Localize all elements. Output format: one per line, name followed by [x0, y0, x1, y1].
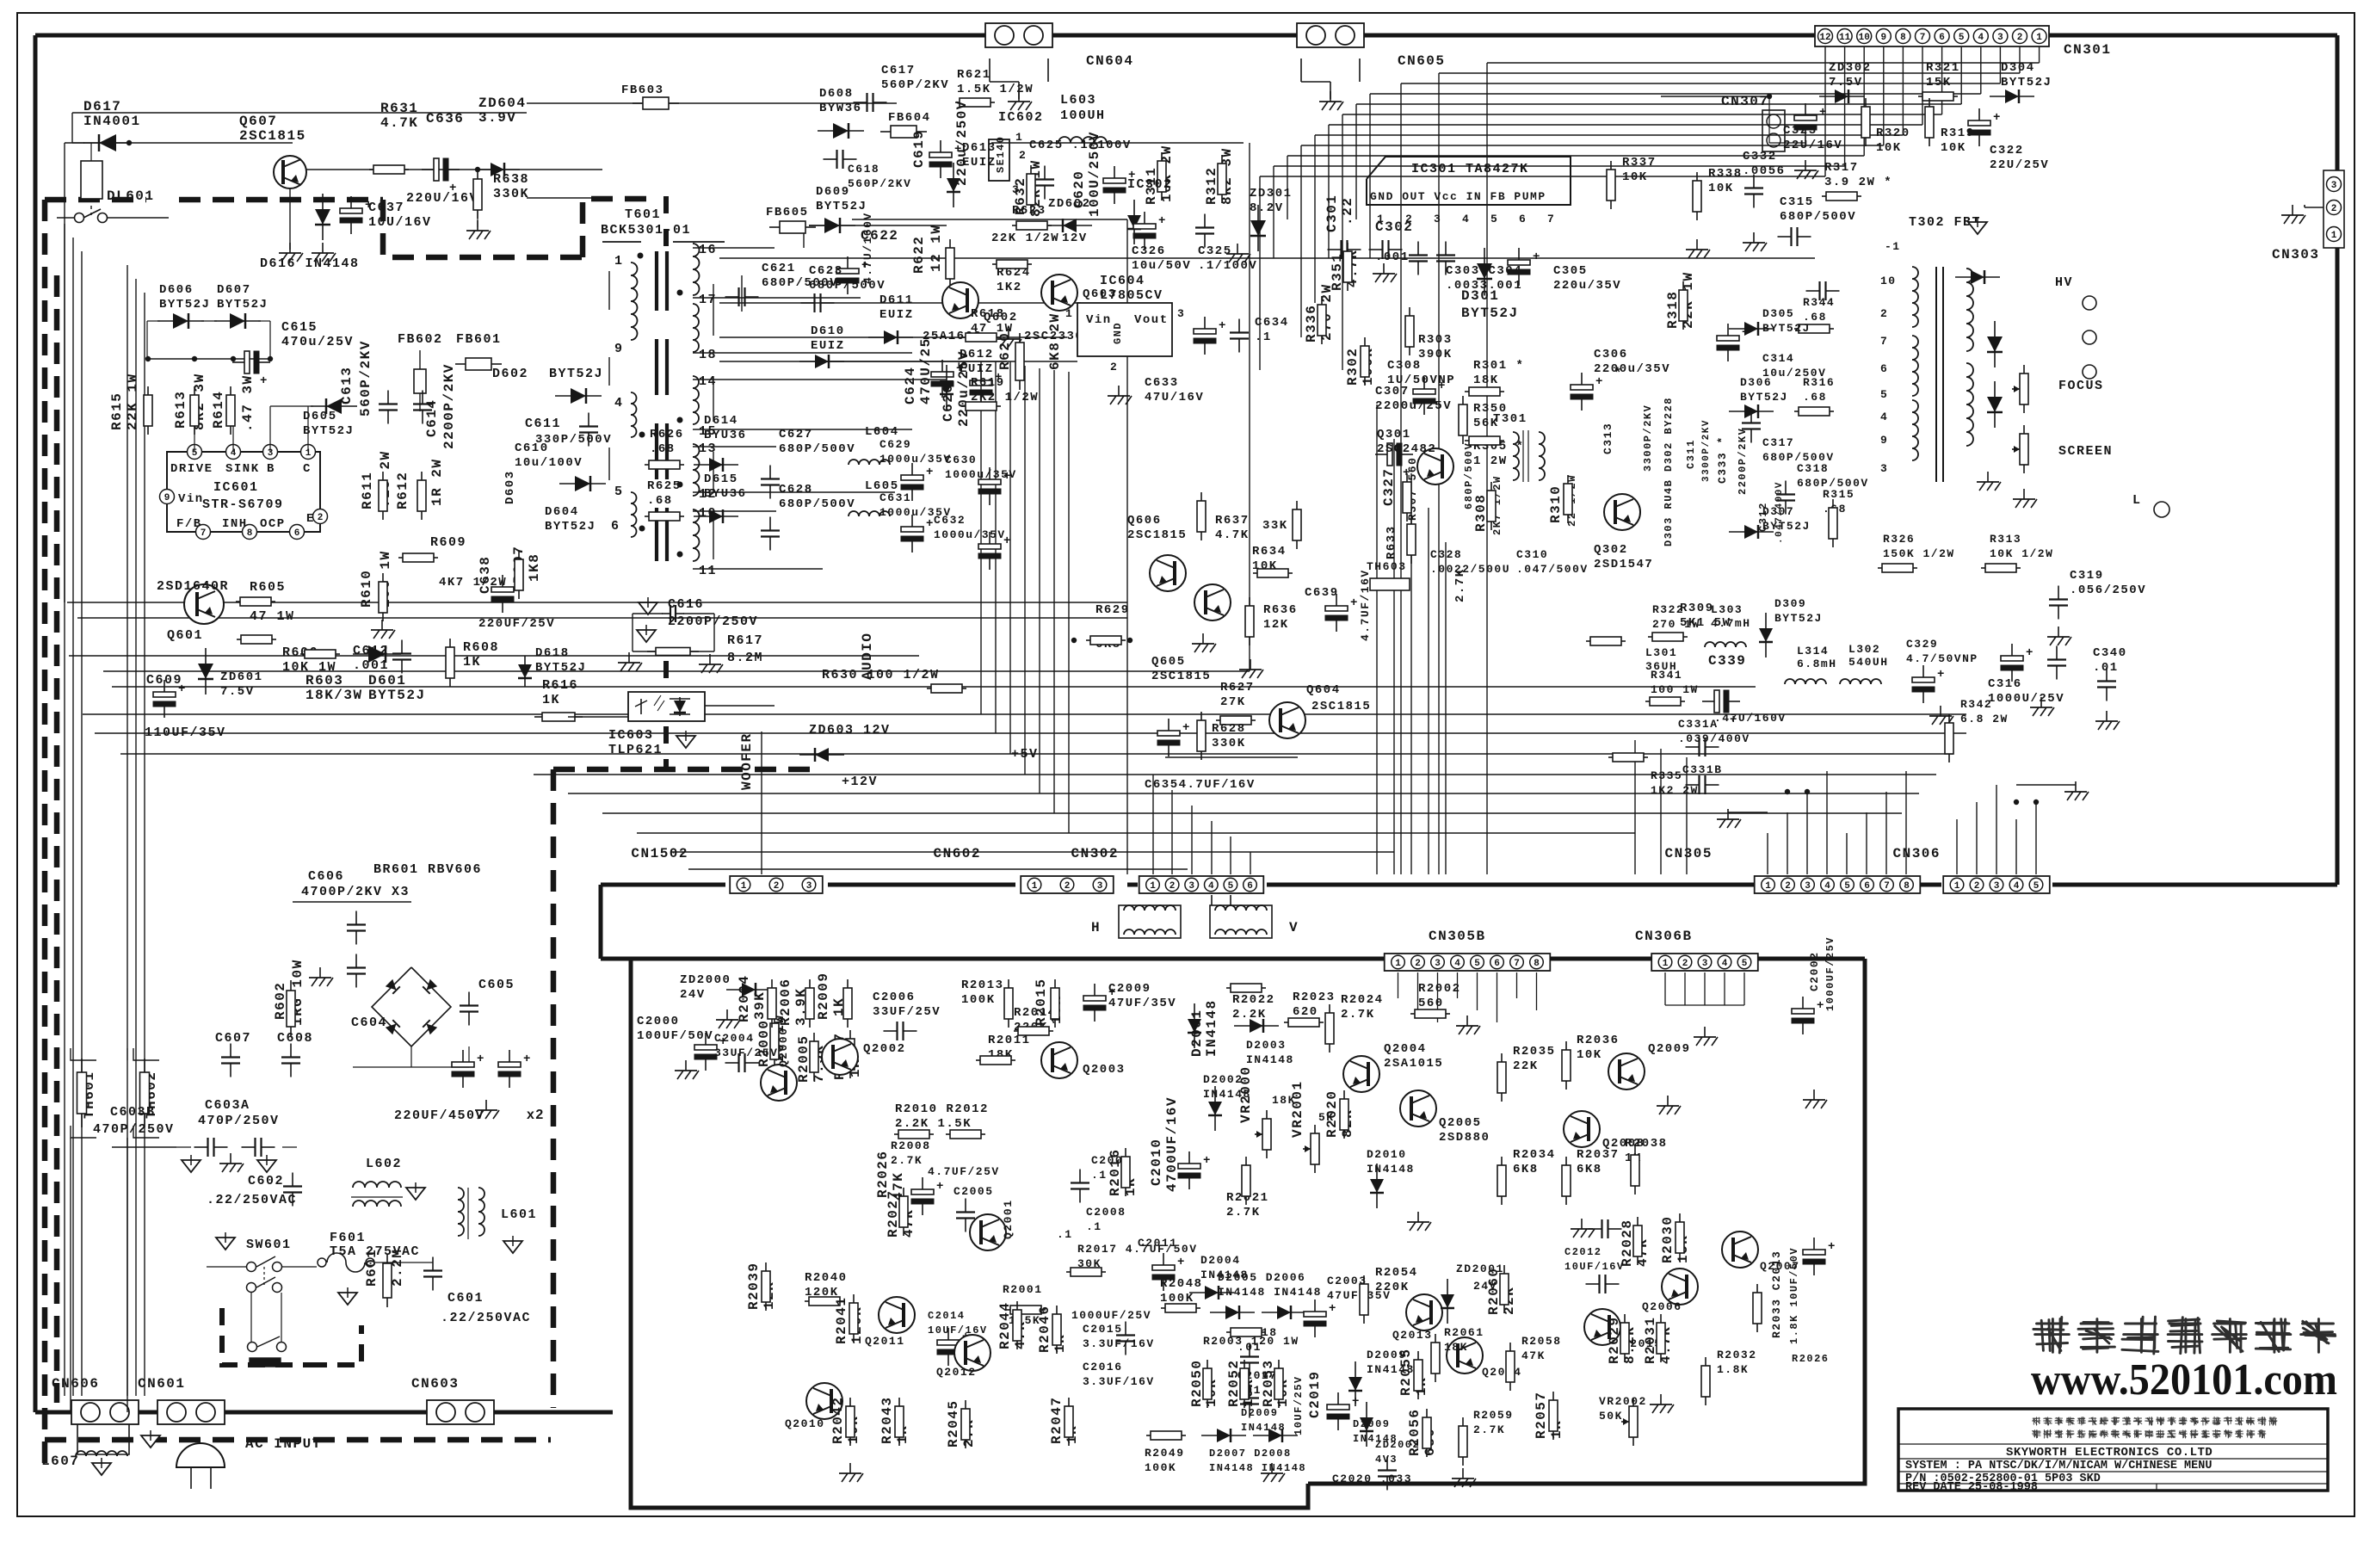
svg-text:6K8: 6K8 [1513, 1163, 1539, 1176]
svg-text:R338: R338 [1708, 167, 1743, 181]
svg-text:R608: R608 [463, 640, 499, 655]
svg-text:D611: D611 [879, 293, 914, 307]
svg-text:4: 4 [614, 396, 624, 411]
svg-text:D604: D604 [545, 505, 579, 519]
svg-text:R638: R638 [493, 172, 529, 187]
svg-text:GND: GND [1112, 322, 1124, 344]
svg-text:1K8: 1K8 [527, 553, 542, 582]
svg-text:ZD601: ZD601 [220, 670, 263, 684]
svg-text:3: 3 [1434, 213, 1441, 225]
svg-text:R2042: R2042 [830, 1396, 846, 1444]
svg-text:2SC1815: 2SC1815 [1151, 670, 1211, 683]
svg-text:R2048: R2048 [1160, 1277, 1203, 1291]
svg-text:Q2009: Q2009 [1648, 1042, 1691, 1056]
svg-text:10K 1/2W: 10K 1/2W [1990, 547, 2053, 560]
svg-text:10K: 10K [1708, 182, 1734, 195]
svg-text:+: + [1158, 214, 1167, 228]
svg-text:12V: 12V [1062, 231, 1088, 245]
svg-text:4: 4 [1462, 213, 1470, 225]
svg-text:SKYWORTH ELECTRONICS CO.LTD: SKYWORTH ELECTRONICS CO.LTD [2006, 1446, 2212, 1460]
svg-text:R2040: R2040 [805, 1271, 848, 1285]
svg-text:R2023: R2023 [1293, 991, 1336, 1004]
svg-text:*: * [1614, 366, 1623, 381]
svg-text:7: 7 [1920, 33, 1926, 43]
svg-text:IN4148: IN4148 [1241, 1422, 1286, 1434]
svg-text:C610: C610 [515, 441, 549, 455]
svg-text:T601: T601 [625, 207, 661, 222]
svg-text:L601: L601 [501, 1207, 537, 1222]
svg-text:C618: C618 [848, 163, 879, 176]
svg-text:220K: 220K [1375, 1281, 1410, 1294]
svg-text:5: 5 [1880, 388, 1888, 401]
svg-text:D301: D301 [1461, 288, 1499, 304]
svg-text:C313: C313 [1601, 423, 1614, 454]
svg-text:4.7mH: 4.7mH [1711, 617, 1751, 630]
svg-text:R2036: R2036 [1577, 1034, 1620, 1047]
svg-text:Q606: Q606 [1127, 514, 1162, 528]
svg-text:C605: C605 [478, 978, 515, 992]
svg-text:470u/25V: 470u/25V [281, 335, 354, 349]
svg-text:18K/3W: 18K/3W [305, 688, 363, 703]
svg-text:1000UF/25V: 1000UF/25V [1824, 936, 1836, 1011]
svg-text:C608: C608 [277, 1031, 313, 1046]
svg-text:C629: C629 [879, 438, 911, 451]
svg-text:D614: D614 [704, 414, 738, 428]
svg-text:R2009: R2009 [816, 972, 831, 1020]
svg-text:C307: C307 [1375, 385, 1410, 398]
svg-text:47U/16V: 47U/16V [1145, 391, 1204, 404]
svg-text:.68: .68 [1803, 391, 1827, 404]
svg-text:D302 BY228: D302 BY228 [1663, 397, 1675, 472]
svg-text:7: 7 [1884, 881, 1890, 892]
svg-text:560: 560 [1418, 997, 1444, 1010]
svg-text:1000u/35V: 1000u/35V [879, 453, 952, 466]
svg-text:R628: R628 [1212, 722, 1246, 736]
svg-text:D605: D605 [303, 410, 337, 423]
svg-text:D306: D306 [1740, 376, 1772, 389]
svg-text:R2020: R2020 [1324, 1090, 1340, 1138]
svg-text:14: 14 [699, 374, 717, 389]
svg-text:BYU36: BYU36 [704, 429, 747, 442]
svg-text:D618: D618 [535, 646, 570, 660]
svg-text:C2005: C2005 [953, 1185, 994, 1198]
svg-text:R2002: R2002 [1418, 982, 1461, 996]
svg-text:F601: F601 [330, 1231, 366, 1245]
svg-text:C: C [303, 462, 312, 476]
svg-text:9: 9 [1880, 33, 1886, 43]
svg-text:+: + [1182, 721, 1191, 735]
svg-text:ZD603 12V: ZD603 12V [809, 723, 891, 738]
svg-text:L314: L314 [1797, 645, 1829, 657]
svg-text:6K8: 6K8 [1577, 1163, 1602, 1176]
svg-text:L301: L301 [1645, 646, 1677, 659]
svg-text:150K 1/2W: 150K 1/2W [1883, 547, 1955, 560]
svg-text:680P/500V: 680P/500V [779, 442, 855, 456]
svg-text:DRIVE: DRIVE [170, 462, 213, 476]
svg-text:4: 4 [1722, 959, 1728, 969]
svg-text:C604: C604 [351, 1015, 387, 1030]
svg-text:R2058: R2058 [1521, 1335, 1562, 1348]
svg-text:D2003: D2003 [1246, 1039, 1287, 1052]
svg-text:C631: C631 [879, 491, 911, 504]
svg-text:8: 8 [247, 528, 253, 539]
svg-text:C615: C615 [281, 320, 318, 335]
svg-text:C305: C305 [1553, 264, 1588, 278]
svg-text:1.8K: 1.8K [1717, 1363, 1749, 1376]
svg-text:D2010: D2010 [1367, 1148, 1407, 1161]
svg-text:680P/500V: 680P/500V [809, 279, 886, 293]
svg-text:D606: D606 [159, 283, 194, 297]
svg-text:4V3: 4V3 [1375, 1454, 1398, 1466]
svg-text:C325: C325 [1198, 244, 1232, 258]
svg-text:R2037: R2037 [1577, 1148, 1620, 1162]
svg-text:BYT52J: BYT52J [1740, 391, 1788, 404]
svg-text:+: + [1350, 596, 1359, 610]
svg-text:3: 3 [1994, 881, 2000, 892]
svg-text:V: V [1289, 920, 1299, 935]
svg-text:Q2000: Q2000 [777, 1027, 790, 1067]
svg-text:BYT52J: BYT52J [159, 298, 210, 312]
svg-text:Q601: Q601 [167, 628, 203, 643]
svg-text:C331A: C331A [1678, 718, 1719, 731]
svg-text:FB605: FB605 [766, 206, 809, 219]
svg-text:R302: R302 [1345, 348, 1361, 386]
svg-text:7: 7 [1514, 959, 1520, 969]
svg-text:C2016: C2016 [1083, 1361, 1123, 1374]
svg-text:6.8mH: 6.8mH [1797, 657, 1837, 670]
svg-text:C326: C326 [1132, 244, 1166, 258]
svg-text:Q2001: Q2001 [1002, 1199, 1015, 1239]
svg-text:R337: R337 [1622, 156, 1657, 170]
svg-text:C603B: C603B [110, 1105, 156, 1120]
svg-text:-1: -1 [1885, 240, 1901, 253]
svg-text:R617: R617 [727, 633, 763, 648]
svg-text:4.7K: 4.7K [1215, 528, 1250, 542]
svg-text:2200P/2KV: 2200P/2KV [441, 363, 457, 449]
svg-text:IN4148: IN4148 [1246, 1053, 1294, 1066]
svg-text:R316: R316 [1803, 376, 1835, 389]
svg-text:IC601: IC601 [213, 480, 259, 495]
svg-text:2.7K: 2.7K [1341, 1008, 1375, 1022]
svg-text:22K 1/2W: 22K 1/2W [991, 231, 1059, 245]
svg-text:DL601: DL601 [107, 188, 155, 204]
svg-text:FB603: FB603 [621, 83, 664, 97]
svg-text:R637: R637 [1215, 514, 1250, 528]
svg-text:C319: C319 [2070, 569, 2104, 583]
svg-text:2.7K: 2.7K [891, 1154, 923, 1167]
svg-text:R2024: R2024 [1341, 993, 1384, 1007]
svg-text:R2008: R2008 [891, 1139, 931, 1152]
svg-text:EUIZ: EUIZ [962, 156, 997, 170]
svg-text:D609: D609 [816, 185, 850, 199]
svg-text:R615: R615 [109, 392, 125, 430]
svg-text:100K: 100K [1145, 1461, 1176, 1474]
svg-text:3300P/2KV: 3300P/2KV [1701, 419, 1712, 482]
svg-text:1: 1 [1395, 959, 1401, 969]
svg-text:10K: 10K [1577, 1048, 1602, 1062]
svg-text:2: 2 [1110, 361, 1118, 373]
svg-text:R2034: R2034 [1513, 1148, 1556, 1162]
svg-text:+: + [1003, 470, 1012, 484]
svg-text:.1: .1 [1255, 330, 1272, 344]
svg-text:7: 7 [1880, 335, 1888, 348]
svg-text:C2004: C2004 [714, 1032, 755, 1045]
svg-text:+: + [2026, 646, 2034, 660]
svg-text:15K: 15K [1926, 76, 1952, 90]
svg-text:2: 2 [1415, 959, 1421, 969]
svg-text:R2013: R2013 [961, 978, 1004, 992]
svg-text:C318: C318 [1797, 462, 1829, 475]
svg-text:C627: C627 [779, 428, 813, 441]
svg-text:2: 2 [1785, 881, 1791, 892]
svg-text:Q2014: Q2014 [1482, 1366, 1522, 1379]
svg-text:D307: D307 [1762, 505, 1794, 518]
svg-text:+: + [1817, 999, 1825, 1013]
svg-text:3.3UF/16V: 3.3UF/16V [1083, 1375, 1155, 1388]
svg-text:IC602: IC602 [998, 110, 1044, 125]
svg-text:1K: 1K [542, 693, 560, 707]
svg-text:R2039: R2039 [746, 1262, 762, 1310]
svg-text:Q2002: Q2002 [863, 1042, 906, 1056]
svg-text:2.2K: 2.2K [1232, 1008, 1267, 1022]
svg-text:B: B [267, 462, 275, 476]
svg-text:C623: C623 [809, 264, 843, 278]
svg-text:3.9 2W *: 3.9 2W * [1824, 176, 1892, 189]
svg-text:1K: 1K [463, 655, 481, 670]
svg-text:R303: R303 [1418, 333, 1453, 347]
svg-text:22K: 22K [1513, 1059, 1539, 1073]
svg-text:Q2013: Q2013 [1392, 1329, 1433, 1342]
svg-text:8: 8 [1904, 881, 1910, 892]
svg-text:R2045: R2045 [946, 1399, 961, 1448]
svg-text:1K2: 1K2 [997, 281, 1022, 294]
svg-text:4: 4 [1824, 881, 1830, 892]
svg-text:5: 5 [2033, 881, 2040, 892]
svg-text:D2004: D2004 [1200, 1254, 1241, 1267]
svg-text:D608: D608 [819, 87, 854, 101]
svg-text:R2044: R2044 [997, 1301, 1013, 1349]
svg-text:1000U/25V: 1000U/25V [1988, 692, 2064, 706]
svg-text:2SD880: 2SD880 [1439, 1131, 1490, 1145]
svg-text:R2030: R2030 [1660, 1215, 1676, 1263]
svg-text:C2019: C2019 [1307, 1370, 1323, 1418]
svg-text:Vin: Vin [1086, 313, 1112, 327]
svg-text:C602: C602 [248, 1174, 284, 1188]
svg-text:2: 2 [2017, 33, 2023, 43]
svg-text:3300P/2KV: 3300P/2KV [1642, 404, 1654, 472]
svg-text:E: E [306, 512, 315, 526]
svg-text:+: + [1108, 986, 1117, 1000]
svg-text:C616: C616 [668, 597, 704, 612]
svg-text:24V: 24V [680, 988, 706, 1002]
svg-text:x2: x2 [527, 1108, 545, 1122]
svg-text:CN604: CN604 [1086, 53, 1134, 69]
svg-text:27K: 27K [1220, 695, 1246, 709]
svg-text:C331B: C331B [1682, 763, 1723, 776]
svg-text:C2010: C2010 [1149, 1138, 1164, 1186]
svg-text:Vin: Vin [178, 492, 204, 506]
svg-text:10u/100V: 10u/100V [515, 456, 583, 470]
svg-text:5: 5 [1228, 881, 1234, 892]
svg-text:R2001: R2001 [1003, 1283, 1043, 1296]
svg-text:L302: L302 [1848, 643, 1880, 656]
svg-text:C2015: C2015 [1083, 1323, 1123, 1336]
svg-text:470P/250V: 470P/250V [93, 1122, 175, 1137]
svg-text:8: 8 [1534, 959, 1540, 969]
svg-text:C634: C634 [1255, 316, 1289, 330]
svg-text:390K: 390K [1418, 348, 1453, 361]
svg-text:C609: C609 [146, 673, 182, 688]
svg-text:+: + [523, 1053, 532, 1066]
svg-text:39K: 39K [752, 991, 768, 1020]
svg-text:C317: C317 [1762, 436, 1794, 449]
svg-text:R322: R322 [1652, 603, 1684, 616]
svg-text:C332: C332 [1743, 150, 1777, 164]
svg-text:R2061: R2061 [1444, 1326, 1484, 1339]
svg-text:R2011: R2011 [988, 1034, 1031, 1047]
svg-text:5: 5 [1742, 959, 1748, 969]
svg-text:.1: .1 [1091, 1169, 1108, 1182]
svg-text:R633: R633 [1385, 525, 1398, 559]
svg-text:BYT52J: BYT52J [2001, 76, 2052, 90]
svg-text:R2010 R2012: R2010 R2012 [895, 1102, 989, 1116]
svg-text:D309: D309 [1774, 597, 1806, 610]
svg-text:+: + [1742, 326, 1750, 340]
svg-text:10K: 10K [1622, 170, 1648, 184]
svg-text:R621: R621 [957, 68, 991, 82]
svg-text:L: L [2132, 493, 2142, 508]
svg-text:R620: R620 [997, 332, 1013, 370]
svg-text:FB601: FB601 [456, 332, 502, 347]
svg-text:ZD2000: ZD2000 [680, 973, 731, 987]
svg-text:2: 2 [1974, 881, 1980, 892]
svg-text:C327: C327 [1381, 468, 1397, 506]
svg-text:BYW36: BYW36 [819, 102, 862, 115]
svg-text:9: 9 [614, 342, 624, 356]
svg-text:IN4148 IN4148: IN4148 IN4148 [1209, 1462, 1306, 1474]
svg-text:.68: .68 [650, 442, 676, 456]
svg-text:C339: C339 [1708, 653, 1746, 669]
svg-text:2: 2 [774, 881, 780, 892]
svg-text:12: 12 [1819, 33, 1830, 43]
svg-text:Q2003: Q2003 [1083, 1063, 1126, 1077]
svg-text:C2020 .033: C2020 .033 [1332, 1472, 1412, 1485]
svg-text:Q2005: Q2005 [1439, 1116, 1482, 1130]
svg-text:CN301: CN301 [2064, 42, 2112, 58]
svg-text:C306: C306 [1594, 348, 1628, 361]
svg-text:C625 .1/100V: C625 .1/100V [1029, 139, 1132, 152]
svg-text:R342: R342 [1960, 698, 1992, 711]
svg-text:R612: R612 [395, 472, 410, 509]
svg-text:1K2 2W: 1K2 2W [1651, 784, 1699, 797]
svg-text:Q2004: Q2004 [1384, 1042, 1427, 1056]
svg-text:2: 2 [1880, 307, 1888, 320]
svg-text:R2046: R2046 [1037, 1305, 1052, 1353]
svg-text:L602: L602 [366, 1157, 402, 1171]
svg-text:220UF/450V: 220UF/450V [394, 1108, 484, 1123]
svg-text:R2015: R2015 [1034, 978, 1049, 1026]
svg-text:C322: C322 [1990, 144, 2024, 157]
svg-text:2.2K 1.5K: 2.2K 1.5K [895, 1117, 972, 1131]
svg-text:1: 1 [1765, 881, 1771, 892]
svg-text:18K: 18K [1444, 1341, 1468, 1354]
svg-text:470P/250V: 470P/250V [198, 1114, 280, 1128]
svg-text:C630: C630 [945, 454, 977, 466]
svg-text:Q2010: Q2010 [785, 1417, 825, 1430]
svg-text:R2035: R2035 [1513, 1045, 1556, 1059]
svg-text:1.8K 10UF/50V: 1.8K 10UF/50V [1788, 1247, 1800, 1344]
svg-text:3: 3 [1435, 959, 1441, 969]
svg-text:R2049: R2049 [1145, 1447, 1185, 1460]
svg-text:2200u/35V: 2200u/35V [1594, 362, 1670, 376]
svg-text:100UF/50V: 100UF/50V [637, 1029, 713, 1043]
svg-text:VR2000: VR2000 [1238, 1065, 1254, 1123]
svg-text:ZD302: ZD302 [1829, 61, 1872, 75]
svg-text:R313: R313 [1990, 533, 2021, 546]
svg-text:+: + [1177, 1256, 1186, 1269]
svg-text:33K: 33K [1262, 519, 1288, 533]
svg-text:OCP: OCP [260, 517, 286, 531]
svg-text:110UF/35V: 110UF/35V [145, 725, 226, 740]
svg-text:7: 7 [1547, 213, 1555, 225]
svg-text:C311: C311 [1685, 439, 1697, 469]
svg-text:+: + [1219, 319, 1227, 333]
svg-text:CN305B: CN305B [1429, 929, 1486, 944]
svg-text:10UF/16V: 10UF/16V [928, 1324, 988, 1337]
svg-text:SE140: SE140 [995, 135, 1007, 173]
svg-text:C2012: C2012 [1564, 1246, 1602, 1258]
svg-text:3: 3 [1177, 307, 1185, 320]
svg-text:6: 6 [1494, 959, 1500, 969]
svg-text:+: + [1819, 106, 1828, 120]
svg-text:18: 18 [699, 348, 717, 362]
svg-text:.0056: .0056 [1743, 164, 1786, 178]
svg-text:R619: R619 [971, 376, 1005, 390]
svg-text:+5V: +5V [1011, 747, 1039, 762]
svg-text:50K: 50K [1599, 1410, 1623, 1423]
svg-text:7: 7 [201, 528, 207, 539]
svg-text:12 1W: 12 1W [929, 224, 944, 272]
svg-text:+: + [936, 1180, 945, 1194]
svg-text:330K: 330K [493, 187, 529, 201]
svg-text:H: H [1091, 920, 1101, 935]
svg-text:SINK: SINK [225, 462, 260, 476]
svg-text:6: 6 [1519, 213, 1527, 225]
svg-text:270 1W: 270 1W [1652, 618, 1700, 631]
svg-text:L603: L603 [1060, 93, 1096, 108]
svg-text:D305: D305 [1762, 307, 1794, 320]
svg-text:5: 5 [1959, 33, 1965, 43]
svg-text:13: 13 [699, 441, 717, 456]
svg-text:D2009: D2009 [1241, 1407, 1279, 1419]
svg-text:R616: R616 [542, 678, 578, 693]
svg-text:R610: R610 [359, 570, 374, 608]
svg-text:C2002: C2002 [1808, 951, 1821, 991]
svg-text:R315: R315 [1823, 488, 1855, 501]
svg-text:47 1W: 47 1W [250, 609, 295, 624]
svg-text:.68: .68 [647, 494, 673, 508]
svg-text:C628: C628 [779, 483, 813, 497]
svg-text:ZD604: ZD604 [478, 96, 527, 111]
svg-text:2SA1015: 2SA1015 [1384, 1057, 1443, 1071]
svg-text:TLP621: TLP621 [608, 743, 663, 757]
svg-text:C620: C620 [1071, 170, 1087, 208]
svg-text:10U/16V: 10U/16V [368, 215, 432, 230]
svg-text:1: 1 [1032, 881, 1038, 892]
svg-text:100U/250V: 100U/250V [1087, 131, 1102, 217]
svg-text:33UF/25V: 33UF/25V [873, 1005, 941, 1019]
svg-text:4: 4 [1208, 881, 1214, 892]
